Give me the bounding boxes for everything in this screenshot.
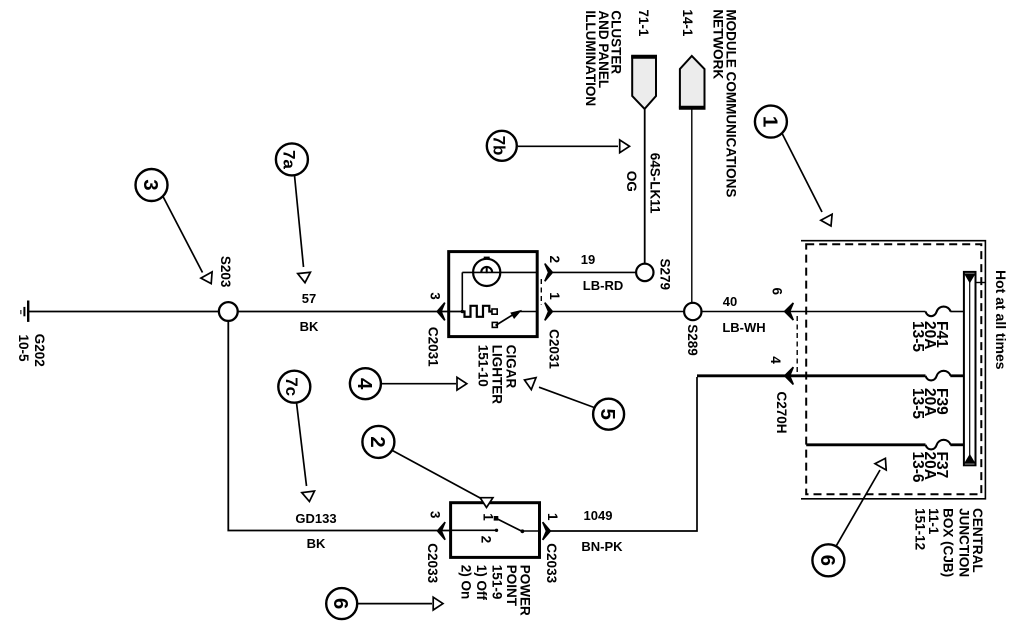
node S279 [636, 264, 653, 281]
off-page connector 71-1 (cluster illumination) [632, 56, 656, 109]
svg-text:BK: BK [307, 536, 326, 551]
svg-text:LB-WH: LB-WH [722, 320, 765, 335]
connector C2033 pin 1 arrow (right) [543, 522, 551, 540]
label GD133 BK [295, 511, 336, 551]
off-page connector 14-1 (module communications network) [680, 56, 705, 108]
power point SW1 box [451, 503, 540, 558]
callout 4 [350, 368, 467, 399]
svg-text:S203: S203 [218, 256, 233, 288]
callout 3 [136, 169, 213, 284]
svg-text:6: 6 [770, 288, 785, 296]
svg-text:64S-LK11: 64S-LK11 [648, 153, 663, 214]
svg-text:1: 1 [547, 292, 562, 300]
svg-text:ILLUMINATION: ILLUMINATION [583, 10, 598, 106]
svg-text:13-5: 13-5 [909, 388, 926, 419]
callout 1 [755, 106, 832, 226]
bus bar Hot at all times [964, 272, 986, 465]
cigar lighter element (lamp circle) [462, 257, 537, 286]
svg-text:14-1: 14-1 [680, 9, 695, 37]
wire S289 to CJB F41 [700, 311, 925, 313]
svg-text:1049: 1049 [584, 508, 613, 523]
svg-text:LIGHTER: LIGHTER [489, 345, 504, 404]
svg-text:POINT: POINT [504, 565, 519, 607]
svg-text:Hot at all times: Hot at all times [993, 270, 1009, 370]
callout 5 [525, 378, 625, 430]
svg-text:3: 3 [139, 179, 162, 190]
svg-text:10-5: 10-5 [16, 335, 31, 363]
heating element meander [462, 306, 491, 317]
svg-text:3: 3 [428, 511, 443, 519]
svg-text:6: 6 [816, 555, 839, 566]
svg-text:71-1: 71-1 [636, 9, 651, 37]
svg-text:7b: 7b [490, 136, 509, 156]
svg-text:NETWORK: NETWORK [711, 9, 726, 79]
label 14-1 [680, 9, 695, 37]
label G202 10-5 [16, 334, 47, 367]
wire 14-1 down to S289 [691, 108, 693, 304]
svg-text:2) On: 2) On [459, 565, 474, 600]
svg-text:1: 1 [480, 513, 495, 521]
connector C2033 pin 3 arrow (left) [438, 522, 446, 540]
svg-text:151-12: 151-12 [912, 508, 927, 550]
fuse F41 20A [926, 307, 951, 317]
svg-text:151-10: 151-10 [476, 345, 491, 387]
node S289 [684, 303, 701, 320]
svg-text:JUNCTION: JUNCTION [956, 508, 971, 577]
CJB dashed box [806, 244, 981, 494]
svg-text:3: 3 [428, 292, 443, 300]
callout 2 [362, 426, 493, 508]
fuse F39 20A wire (thick) [926, 371, 951, 381]
CJB outer solid border [801, 241, 985, 499]
label 71-1 [636, 9, 651, 37]
svg-text:C2033: C2033 [544, 543, 559, 583]
svg-text:1: 1 [758, 116, 781, 127]
svg-text:7a: 7a [280, 150, 299, 169]
wire 57 BK (ground to S203 to cigar lighter pin 3) [29, 311, 220, 313]
svg-text:1) Off: 1) Off [474, 565, 489, 601]
label CLUSTER AND PANEL ILLUMINATION [583, 10, 623, 106]
callout 6 (CJB) [812, 458, 886, 576]
svg-text:4: 4 [353, 378, 376, 390]
wire 19 LB-RD pin2 to S279 [553, 271, 637, 273]
svg-text:19: 19 [581, 252, 595, 267]
svg-text:LB-RD: LB-RD [583, 278, 623, 293]
svg-text:6: 6 [329, 598, 352, 609]
svg-text:G202: G202 [32, 334, 47, 367]
label CENTRAL JUNCTION BOX (CJB) 11-1 151-12 [912, 508, 985, 577]
svg-text:57: 57 [302, 291, 316, 306]
svg-text:13-5: 13-5 [909, 321, 926, 352]
svg-text:1: 1 [545, 513, 560, 521]
callout 6 (power point) [326, 588, 443, 619]
power point switch [451, 529, 497, 531]
svg-text:CIGAR: CIGAR [503, 345, 518, 389]
svg-text:OG: OG [624, 171, 639, 192]
node S203 [219, 302, 238, 321]
wire F39 down to power point (1049 BN-PK) [697, 374, 926, 377]
svg-text:BK: BK [300, 319, 319, 334]
wire S203 down to GD133 run [228, 321, 450, 531]
svg-text:GD133: GD133 [295, 511, 336, 526]
svg-text:C270H: C270H [774, 392, 789, 434]
svg-text:BOX (CJB): BOX (CJB) [941, 508, 956, 577]
inner wire from lamp to element [461, 272, 463, 311]
connector C270H arrows [785, 303, 794, 320]
label MODULE COMMUNICATIONS NETWORK [711, 9, 739, 197]
wire 64S-LK11 OG (S279 up to connector 71-1) [644, 109, 646, 264]
svg-text:40: 40 [723, 294, 737, 309]
fuse F37 20A wire (thick) [806, 443, 925, 446]
svg-text:S279: S279 [658, 259, 673, 291]
svg-text:C2031: C2031 [425, 327, 440, 367]
svg-text:4: 4 [768, 356, 783, 364]
label 57 BK [300, 291, 319, 334]
svg-text:S289: S289 [685, 324, 700, 356]
callout 7c [278, 371, 314, 502]
svg-text:2: 2 [547, 256, 562, 264]
svg-text:C2033: C2033 [425, 543, 440, 583]
callout 7a [276, 143, 311, 282]
svg-text:13-6: 13-6 [909, 452, 926, 483]
callout 7b [487, 131, 630, 161]
switch contacts in cigar lighter [492, 309, 497, 314]
ground G202 [21, 301, 28, 322]
svg-text:151-9: 151-9 [490, 565, 505, 600]
connector C2031 pins 1,2 arrows (right) + dashed link [545, 264, 553, 282]
label CIGAR LIGHTER 151-10 [476, 345, 519, 404]
svg-text:C2031: C2031 [547, 329, 562, 369]
cigar lighter U1 box [449, 252, 538, 337]
svg-text:7c: 7c [282, 377, 301, 396]
connector C2031 pin 3 arrow (left) [437, 303, 445, 321]
label POWER POINT 151-9 1) Off 2) On [459, 565, 533, 616]
svg-text:BN-PK: BN-PK [581, 539, 623, 554]
svg-text:2: 2 [478, 536, 493, 544]
switch arm with arrowhead [496, 313, 517, 326]
svg-text:2: 2 [366, 436, 389, 447]
wire pin1 to S289 (40 LB-WH) [553, 311, 685, 313]
svg-text:5: 5 [596, 408, 619, 419]
